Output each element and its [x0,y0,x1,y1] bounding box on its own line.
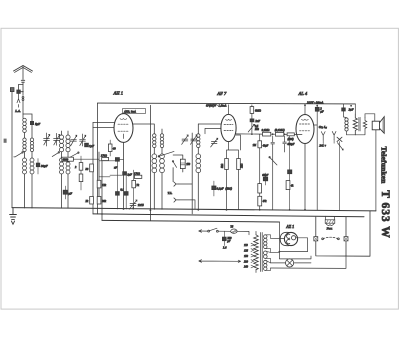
resistor Rk2 [237,159,241,170]
capacitor 0.1uF [212,186,216,190]
wire antenna to coils [23,114,32,121]
transformer T3 primary zigzag [254,235,259,270]
svg-text:2µF: 2µF [349,108,354,112]
lamp line [271,262,312,264]
wire HT rail [98,102,356,105]
svg-text:nF: nF [114,167,117,170]
resistor R8 [97,197,101,205]
wire secondary leads [265,235,279,271]
terminal TA1 [174,182,179,186]
trimmer 0.5M [248,124,254,132]
tube AL4 [296,115,314,144]
wire cathode resistors down [227,170,239,210]
capacitor 5pF [30,121,33,124]
coil L1a [23,118,27,132]
svg-text:Ferr.: Ferr. [326,226,333,230]
resistor 0.1M a [263,132,271,136]
terminal TA2 [174,198,179,202]
switch mains [208,230,210,232]
tube AH1 [114,114,133,143]
wire [62,131,69,208]
svg-text:L.6: L.6 [222,247,227,250]
heater line low [271,256,347,268]
capacitor 30pF [37,159,39,164]
trimmer C6 [80,134,86,146]
tube AZ1 [284,232,297,245]
switch S1c [70,153,78,157]
wire AL4 top [304,105,306,114]
node antenna plug [22,96,24,98]
resistor box X b [344,237,348,241]
svg-text:2nF: 2nF [255,119,260,123]
mains line 2 [199,260,241,263]
resistor box X a [314,237,318,241]
svg-text:L.A.: L.A. [14,109,21,113]
coil L3a [59,135,63,152]
svg-text:Gry Lg: Gry Lg [319,125,328,129]
wire 2M column [251,105,253,134]
svg-text:30pF: 30pF [41,164,48,168]
wire AZ1 leads [271,222,312,259]
resistor R1b [79,163,83,171]
wire AH1 cathode down [123,142,125,209]
svg-text:1µF: 1µF [89,144,94,148]
wire coil bottoms to bus [25,174,33,208]
resistor R10 [90,164,94,172]
trimmer C3 [44,133,50,146]
IF transformer T1 coil d [160,154,165,173]
terminal E [10,88,14,92]
svg-text:AF 7: AF 7 [216,91,227,96]
wire AF7 top [228,105,230,115]
wire rail end into choke [354,104,356,114]
IF transformer T1 coil a [153,134,156,148]
trimmer C4 [54,133,60,145]
resistor 2MOhm [250,107,254,114]
resistor R14 [258,196,262,206]
svg-text:AZ 1: AZ 1 [285,224,294,229]
speaker [372,121,379,130]
resistor R7 [97,180,101,188]
lamp [286,259,294,267]
trimmer C5 [71,139,77,141]
coil L2a [30,138,33,152]
label AH1 1mA box [123,109,146,114]
wire T1 [154,129,162,209]
svg-text:Telefunken: Telefunken [380,147,389,184]
capacitor 2nF [250,119,254,122]
wire AH1 grid lines [93,123,114,128]
capacitor 250pF [223,231,225,245]
wire AH1 top [123,112,125,114]
resistor 1M [258,141,262,148]
IF transformer T1 coil b [160,134,163,148]
ferrite choke [326,216,335,220]
output transformer T2 primary [345,118,348,131]
resistor 17k b [134,175,141,178]
trimmer C15 [182,139,188,141]
capacitor C11 [116,192,120,196]
wire [25,152,33,158]
IF transformer T1 coil c [152,154,157,173]
resistor 300 [287,133,294,136]
trimmer C16 [191,139,197,141]
wire AF7 cathode [227,135,241,158]
coil L4a [66,135,70,152]
capacitor 2uF a [315,107,319,111]
svg-text:213V - 36mA: 213V - 36mA [307,100,323,104]
antenna [14,66,33,73]
svg-text:241 v: 241 v [319,143,326,147]
fuse [231,229,237,233]
capacitor 2uF b [342,108,346,111]
resistor R9 [90,197,94,205]
capacitor C12 [124,192,128,196]
coil L1c [23,158,27,174]
svg-text:0,1MΩ: 0,1MΩ [262,129,270,132]
svg-text:40µF: 40µF [263,145,269,148]
wire left edge [11,92,13,208]
core T2 [359,117,360,131]
resistor R15 [286,181,290,190]
capacitor 1uF [85,143,89,147]
switch S1b [52,153,58,157]
bus B [93,214,364,217]
svg-text:MΩ: MΩ [254,128,259,131]
resistor R1c [79,174,83,182]
ground [10,208,17,224]
IF coil L5a [197,134,200,148]
svg-text:12/15: 12/15 [138,204,145,207]
secondary 6.3V winding [264,260,267,270]
resistor R13 [258,184,262,193]
switch S2 [159,151,174,156]
wire stage1 verticals [99,105,150,220]
wire speaker return [375,130,377,211]
svg-text:(300): (300) [288,138,294,141]
wire TA links [179,184,195,209]
svg-text:400pF: 400pF [287,143,295,146]
bus A main earth [12,208,376,211]
IF coil L5b [196,154,201,173]
switch S3 [173,162,177,168]
coil L2b [30,158,34,174]
svg-text:3kΩ: 3kΩ [221,164,224,168]
secondary 4V winding [263,251,267,258]
choke zigzag [353,114,357,135]
capacitor 400pF [283,136,287,152]
tube AF7 [221,114,236,141]
svg-text:AL 4: AL 4 [298,91,308,96]
svg-text:(0,1MΩ): (0,1MΩ) [275,129,285,132]
wire misc column [265,136,289,210]
bus C [102,220,279,222]
svg-text:0MΩ: 0MΩ [255,109,261,113]
wire anode chain [236,133,302,136]
terminal Y1 [321,132,325,140]
svg-text:T.A.: T.A. [168,191,173,195]
capacitor 65uF [263,177,267,181]
capacitor C20 [271,136,275,210]
resistor 6000 [62,157,74,161]
capacitor C17 [180,159,185,168]
wire AF7 grid [198,124,221,134]
secondary HV winding [264,235,267,249]
wire potentiometer diag [337,143,343,150]
svg-text:17kΩ: 17kΩ [101,154,107,157]
svg-text:pF: pF [226,240,230,243]
svg-text:1µF: 1µF [127,173,132,176]
terminal G [4,139,7,143]
resistor R3 [108,144,112,152]
capacitor C8 [63,190,67,194]
wire 6000 to stage1 [73,158,99,160]
arrester A (spark gap) [19,85,24,90]
svg-text:17kΩ: 17kΩ [134,172,140,175]
terminal Y2 [332,131,336,139]
wire [62,152,69,158]
wire L5 [197,124,199,210]
svg-text:(2kΩ): (2kΩ) [225,187,232,190]
secondary zigzag [355,117,367,135]
wire antenna lead [21,67,25,115]
resistor 17k [102,157,109,160]
wire AL4 links [323,140,339,211]
mains line 1 [199,231,249,235]
wire IF links [173,133,192,214]
wire [24,133,26,139]
coil L1b [23,138,26,152]
capacitor 1uF b [123,172,127,175]
svg-text:0,1µF: 0,1µF [217,187,224,190]
svg-text:1kΩ: 1kΩ [241,164,244,168]
svg-text:AH1; 1mA: AH1; 1mA [123,110,136,113]
capacitor C22 [288,170,292,174]
wire AH1 anode to T1 [133,124,154,129]
wire [259,134,261,209]
resistor R6 [132,180,136,187]
capacitor C10 [115,158,119,162]
svg-text:5pF: 5pF [35,122,40,126]
switch S1a [14,153,22,157]
trimmer C18 [211,142,217,144]
svg-text:6000: 6000 [63,159,69,162]
coil L4b [66,158,70,174]
core T3 [260,233,262,272]
switch S4 [270,157,277,165]
wire stage1 links [99,159,134,209]
resistor Rk1 [225,159,229,170]
switch X1 [337,137,342,141]
wire speaker loop [365,114,375,121]
coil L3b [60,158,64,174]
svg-text:µF: µF [320,110,324,114]
wire box left [93,103,98,214]
resistor 0.1M b [276,132,284,136]
svg-text:AH 1: AH 1 [113,91,124,96]
trimmer C13 [130,204,136,206]
svg-text:T 633 W: T 633 W [379,190,391,238]
wire lamp loop [316,211,370,256]
switch S5 dashed [323,237,338,239]
taps [251,243,254,268]
wire AL4 cathode [304,144,306,210]
svg-text:µF: µF [69,192,73,196]
